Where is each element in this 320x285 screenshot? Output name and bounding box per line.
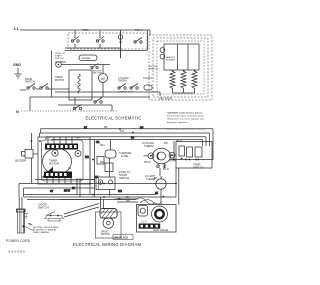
arrow mark	[115, 198, 121, 200]
wires door	[27, 200, 99, 218]
wire heat row	[55, 92, 160, 96]
svg-text:MOTOR: MOTOR	[49, 162, 59, 166]
wire bottom bus	[30, 96, 150, 98]
broken belt contact	[94, 101, 96, 103]
svg-text:OR: OR	[96, 142, 100, 144]
svg-text:RD: RD	[140, 127, 144, 129]
junction dots	[31, 128, 197, 198]
small ground at cord	[25, 214, 29, 219]
timer terminal strip bottom	[44, 172, 72, 179]
power cord connector bar	[17, 209, 26, 212]
svg-text:BU: BU	[72, 188, 76, 190]
coil stubs	[173, 88, 195, 93]
igniter circle	[156, 179, 166, 189]
svg-text:BK: BK	[104, 125, 108, 129]
svg-text:POWER CORD: POWER CORD	[6, 239, 31, 243]
wire dropper to SW2	[99, 30, 101, 38]
node B junction	[118, 35, 122, 39]
svg-text:1 2 3: 1 2 3	[141, 221, 147, 224]
wire left drop 2	[41, 129, 53, 141]
wire left drop	[51, 51, 53, 98]
svg-text:BK-R: BK-R	[163, 168, 169, 171]
timer contact SW2	[96, 40, 98, 42]
wire dropper to SW1	[74, 30, 76, 38]
wire into heater	[148, 30, 151, 51]
valve terminal strip	[139, 224, 161, 229]
wire temp row	[170, 159, 213, 161]
svg-text:8A0080: 8A0080	[9, 250, 26, 254]
wire WD top bus 3	[46, 136, 206, 138]
caution note	[167, 112, 205, 131]
left small box A	[105, 163, 113, 172]
svg-text:dangerous operation.: dangerous operation.	[167, 121, 188, 124]
inline connector	[98, 180, 102, 184]
svg-text:ELECTRICAL WIRING DIAGRAM: ELECTRICAL WIRING DIAGRAM	[73, 242, 141, 247]
legend box	[113, 235, 133, 240]
left small box A1	[97, 157, 104, 165]
svg-text:SWITCH: SWITCH	[25, 81, 35, 84]
timer motor circle	[43, 149, 72, 175]
motor pulley circle	[103, 218, 114, 229]
svg-text:WH: WH	[118, 191, 122, 193]
svg-text:SWITCH: SWITCH	[119, 176, 129, 180]
wire WD top bus 1	[41, 128, 214, 130]
pts contact circle	[56, 62, 62, 68]
left small box B	[96, 177, 115, 190]
timer top stubs	[48, 137, 72, 144]
temp switch box	[176, 142, 212, 169]
svg-text:SWITCH: SWITCH	[55, 58, 64, 60]
svg-text:THERMAL: THERMAL	[81, 57, 91, 60]
svg-text:GND: GND	[13, 63, 21, 67]
timer drop wires	[77, 178, 80, 197]
power cord top leads	[19, 197, 22, 209]
svg-text:N: N	[16, 109, 19, 114]
timer box	[38, 137, 90, 184]
wire junction dropper	[120, 30, 122, 58]
wire row2	[65, 47, 121, 49]
wire WD top bus 2	[40, 132, 210, 134]
wire drops to motor	[101, 197, 104, 209]
svg-text:disconnection when servicing c: disconnection when servicing controls.	[167, 115, 205, 118]
wires motor-valve	[117, 199, 138, 202]
heater dashed box inner2	[157, 41, 204, 94]
ground	[15, 68, 22, 78]
heater coil 3	[192, 71, 197, 88]
cycling thermostat	[153, 148, 171, 164]
timer bottom stubs	[47, 178, 71, 184]
wire left drop 1	[39, 133, 41, 137]
timer motor hub	[52, 150, 58, 156]
svg-text:ELEMENT: ELEMENT	[166, 59, 176, 61]
terminal dots	[172, 70, 174, 72]
svg-text:REAR CHANNEL: REAR CHANNEL	[33, 231, 50, 234]
power cord terminal dot	[23, 225, 25, 227]
wire loom mid	[19, 180, 176, 189]
switch cell 1	[179, 146, 185, 156]
wire mid row	[58, 105, 112, 111]
svg-text:THERM: THERM	[144, 144, 154, 148]
wire SW1 down	[74, 44, 76, 48]
motor M schematic	[99, 74, 108, 83]
svg-text:HI-LIMIT: HI-LIMIT	[143, 77, 153, 80]
wire N dotted	[21, 110, 118, 112]
coil 2	[152, 206, 168, 222]
heater coil 1	[170, 71, 175, 88]
svg-text:RD-W: RD-W	[169, 160, 176, 163]
timer inner	[42, 140, 84, 181]
thermal fuse pill schematic	[79, 55, 97, 61]
svg-text:THERM: THERM	[118, 80, 127, 83]
timer switch dashed box TM	[68, 33, 147, 49]
svg-text:MOTOR: MOTOR	[101, 234, 110, 236]
wire right col	[203, 129, 214, 160]
wire buzzer	[33, 153, 38, 155]
svg-text:GY: GY	[50, 191, 54, 193]
svg-text:BK-BLACK: BK-BLACK	[115, 236, 129, 240]
svg-text:GAS VALVE: GAS VALVE	[159, 98, 172, 101]
svg-text:BU: BU	[131, 138, 135, 140]
gas valve box	[137, 205, 177, 233]
svg-text:ELECTRICAL SCHEMATIC: ELECTRICAL SCHEMATIC	[86, 116, 142, 121]
svg-text:FUSE: FUSE	[121, 154, 128, 158]
door contact b	[40, 87, 42, 89]
svg-text:WH: WH	[100, 143, 104, 147]
wire WD top bus 4	[52, 139, 203, 141]
wire cycling left stub	[144, 155, 149, 157]
thermal fuse schematic	[144, 85, 152, 90]
coil 1	[138, 206, 148, 217]
svg-text:11: 11	[68, 166, 71, 170]
coil	[78, 74, 80, 93]
wire row2b	[65, 50, 147, 52]
svg-text:SWITCH: SWITCH	[149, 68, 158, 70]
switch cell 3	[195, 147, 202, 157]
wire row3	[55, 62, 110, 65]
timer contact SW1	[71, 40, 73, 42]
wire SW2 down	[99, 44, 101, 48]
svg-text:BK: BK	[154, 177, 158, 180]
svg-text:BK: BK	[84, 127, 88, 129]
heater coil 2	[181, 71, 186, 88]
svg-text:BUZZER: BUZZER	[16, 159, 27, 163]
wire loom lower	[24, 195, 176, 200]
gas valve wires curvy	[136, 198, 161, 204]
wire vertical left	[29, 97, 31, 111]
broken belt contact	[91, 66, 93, 68]
svg-text:TMR: TMR	[82, 28, 89, 32]
thermal fuse	[105, 150, 116, 158]
svg-text:GAS VALVE: GAS VALVE	[153, 228, 168, 232]
door contact a	[27, 87, 29, 89]
wire L1 top bus	[20, 29, 150, 31]
heater dashed box outer	[149, 35, 212, 100]
svg-text:TM-1: TM-1	[135, 28, 142, 32]
timer aux contact	[75, 151, 81, 157]
svg-text:RD-W: RD-W	[144, 161, 151, 164]
door switch symbol	[44, 212, 64, 222]
sensor circle a	[160, 48, 165, 53]
svg-text:BK: BK	[155, 193, 159, 195]
power cord block	[17, 210, 24, 234]
svg-text:L1: L1	[14, 26, 19, 31]
n-line contact	[73, 107, 75, 109]
fine print arrow	[28, 223, 34, 226]
svg-text:RD: RD	[164, 141, 168, 145]
buzzer	[22, 150, 34, 159]
timer terminal strip top	[45, 144, 78, 150]
sensor circle b	[160, 54, 165, 59]
svg-text:SWITCH: SWITCH	[193, 166, 204, 170]
svg-text:WH: WH	[85, 157, 89, 159]
svg-text:BK: BK	[95, 177, 99, 179]
svg-text:M: M	[101, 76, 104, 81]
svg-text:Wiring errors can cause improp: Wiring errors can cause improper and	[167, 118, 204, 121]
extra wire labels	[50, 127, 159, 195]
svg-text:*CAUTION: Label all wires prio: *CAUTION: Label all wires prior to	[167, 112, 203, 115]
switch cell 2	[187, 147, 193, 157]
heater internal wires	[178, 44, 189, 70]
wire cord diag	[24, 226, 33, 230]
motor connector block	[100, 209, 117, 219]
timer motor box schematic	[69, 70, 92, 100]
wire cyc	[173, 141, 175, 159]
heater solid box	[164, 44, 199, 70]
timer contact SW3	[134, 41, 136, 43]
timer strip wedge	[42, 167, 54, 178]
drive motor box	[96, 212, 122, 238]
wire left col	[31, 133, 33, 184]
svg-text:SWITCH: SWITCH	[38, 206, 49, 210]
svg-text:BK-W: BK-W	[64, 191, 71, 193]
wire door row	[20, 89, 69, 90]
heater dashed box inner	[153, 38, 208, 97]
wire verticals mid	[90, 140, 95, 198]
svg-text:MOTOR: MOTOR	[55, 79, 64, 82]
svg-text:WH: WH	[76, 135, 80, 139]
